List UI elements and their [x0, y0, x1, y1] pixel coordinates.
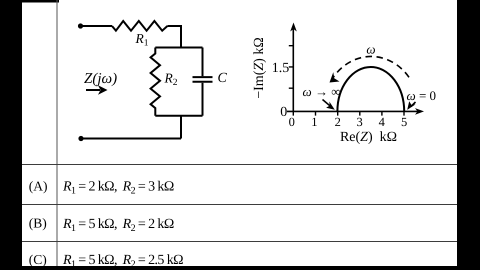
svg-text:(C): (C) [29, 252, 47, 267]
svg-text:ω = 0: ω = 0 [407, 88, 437, 103]
y axis [292, 27, 294, 112]
x axis [287, 110, 419, 112]
svg-text:ω: ω [366, 42, 375, 57]
capacitor C top lead [202, 48, 204, 77]
arrowhead on dashed arc [330, 72, 340, 82]
svg-text:−Im(Z) kΩ: −Im(Z) kΩ [252, 37, 267, 98]
resistor R2 [151, 48, 160, 116]
svg-text:0: 0 [280, 105, 287, 120]
svg-text:0: 0 [289, 115, 295, 129]
arrow Z direction [86, 89, 100, 91]
dashed omega direction arc [332, 56, 409, 79]
terminal dot top [78, 23, 83, 28]
left black margin bar [0, 0, 22, 270]
right black margin bar [457, 0, 480, 270]
wire bottom bar of parallel section [155, 115, 202, 117]
impedance locus semicircle [337, 67, 404, 112]
capacitor C plates [193, 77, 213, 82]
wire bottom lead [81, 138, 181, 140]
svg-text:3: 3 [356, 115, 362, 129]
wire bottom stub [180, 116, 182, 139]
table row line 2 [22, 204, 457, 206]
wire R1 to corner [167, 26, 181, 48]
svg-text:ω → ∞: ω → ∞ [303, 84, 341, 99]
svg-text:Z(jω): Z(jω) [84, 71, 117, 87]
arrow to semicircle left end [323, 100, 331, 107]
svg-text:4: 4 [379, 115, 386, 129]
svg-text:C: C [218, 71, 228, 86]
terminal dot bottom [78, 136, 83, 141]
svg-text:5: 5 [401, 115, 407, 129]
top black strip over label column [0, 0, 59, 3]
svg-text:(B): (B) [29, 216, 47, 231]
bottom black margin bar [0, 266, 480, 270]
svg-text:1: 1 [311, 115, 317, 129]
x ticks [293, 111, 404, 115]
capacitor C bottom lead [202, 83, 204, 116]
svg-text:1.5: 1.5 [272, 61, 290, 76]
svg-text:R1 = 5 kΩ, R2 = 2.5 kΩ: R1 = 5 kΩ, R2 = 2.5 kΩ [62, 253, 183, 270]
arrow to semicircle right end [411, 102, 416, 107]
table row line 1 [22, 164, 457, 166]
svg-text:R1 = 5 kΩ, R2 = 2 kΩ: R1 = 5 kΩ, R2 = 2 kΩ [62, 217, 174, 234]
wire top lead [81, 25, 113, 27]
svg-text:R1 = 2 kΩ, R2 = 3 kΩ: R1 = 2 kΩ, R2 = 3 kΩ [62, 179, 174, 196]
wire top bar of parallel section [155, 47, 202, 49]
resistor R1 [112, 21, 167, 31]
svg-text:(A): (A) [29, 178, 48, 193]
vertical table rule [56, 0, 58, 266]
svg-text:2: 2 [335, 115, 341, 129]
y ticks [289, 46, 294, 88]
svg-text:Re(Z) kΩ: Re(Z) kΩ [340, 130, 397, 145]
table row line 3 [22, 241, 457, 243]
